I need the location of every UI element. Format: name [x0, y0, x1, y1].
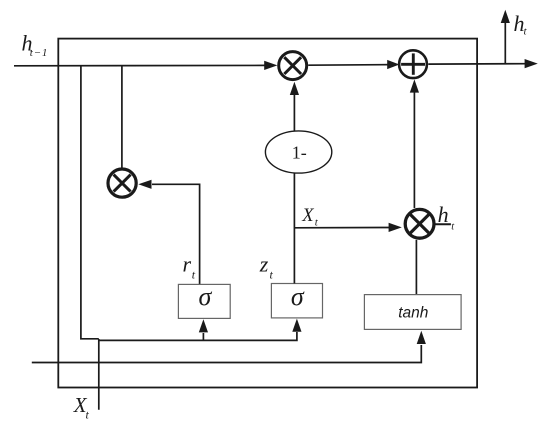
sigma box R gate [178, 282, 230, 318]
svg-text:t−1: t−1 [30, 47, 48, 59]
wire h branch down at x=122 to reset multiply [121, 66, 123, 168]
arrowhead h_t up [501, 10, 510, 23]
tanh box [364, 295, 461, 330]
wire ellipse up to top multiply [293, 95, 295, 131]
svg-text:1-: 1- [292, 142, 307, 162]
multiply node (reset-applied) top-left circle X [279, 52, 307, 80]
wire h branch down at x=81 to feed gates [81, 66, 99, 339]
wire candidate multiply down to tanh [415, 240, 417, 295]
svg-text:tanh: tanh [398, 305, 428, 322]
arrowhead into multiply node left [264, 61, 277, 70]
arrowhead into plus node left [387, 60, 399, 69]
label X_t (bottom input) [73, 393, 90, 421]
multiply node (reset gate) circle X [108, 169, 136, 197]
svg-text:σ: σ [291, 282, 305, 311]
arrowhead into reset multiply right [138, 180, 151, 189]
wire multiply to plus [308, 64, 391, 67]
svg-text:t: t [192, 267, 196, 281]
svg-text:t: t [270, 267, 274, 281]
ellipse 1-minus node [265, 131, 331, 173]
label X_t (middle) [301, 206, 319, 228]
wire plus node down to candidate multiply [413, 91, 415, 208]
svg-text:t: t [524, 26, 528, 38]
sigma box Z gate [271, 282, 322, 318]
wire plus node to right output [428, 63, 526, 65]
arrowhead up into plus node bottom [410, 79, 419, 92]
wire input feed line to tanh [32, 345, 422, 363]
svg-text:t: t [451, 222, 455, 233]
plus node circle [399, 50, 427, 78]
wire h_{t-1} input line [14, 64, 266, 66]
wire sigma-r output to reset multiply [152, 184, 200, 284]
svg-text:σ: σ [198, 282, 212, 311]
label h_{t-1} [22, 31, 49, 60]
label h-tilde_t at candidate multiply [433, 202, 455, 233]
wire X_t input vertical [98, 339, 100, 410]
wire gate feed line to sigma-z [98, 332, 297, 340]
arrowhead into sigma-r bottom [199, 319, 208, 332]
svg-text:h: h [438, 202, 449, 227]
arrowhead into sigma-z bottom [292, 319, 301, 332]
outer cell box [58, 39, 477, 388]
multiply node (candidate) circle X [405, 209, 434, 238]
svg-text:t: t [86, 408, 90, 422]
label h_t (top right) [514, 11, 528, 38]
arrowhead into candidate multiply left [389, 223, 402, 232]
svg-text:r: r [183, 251, 192, 276]
svg-text:X: X [301, 206, 314, 226]
svg-text:z: z [259, 252, 269, 277]
wire h_t up branch [504, 22, 506, 64]
label z_t [259, 252, 274, 282]
svg-text:t: t [315, 216, 319, 228]
label r_t [183, 251, 196, 281]
wire z branch to candidate multiply [294, 227, 390, 229]
arrowhead output right [525, 59, 538, 68]
arrowhead into top multiply bottom [290, 82, 299, 95]
wire branch up into sigma-r [202, 333, 204, 340]
wire z up from sigma-z to ellipse [293, 173, 295, 283]
arrowhead into tanh bottom [417, 331, 426, 344]
